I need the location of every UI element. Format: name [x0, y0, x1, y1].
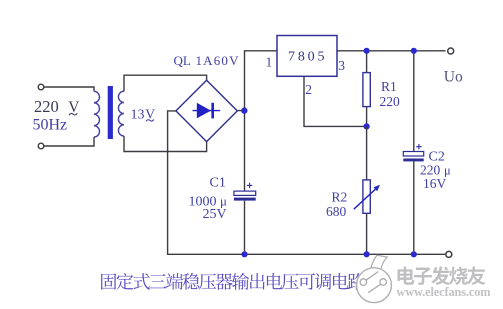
- watermark logo inner left circle: [360, 279, 367, 286]
- wire primary top: [44, 87, 94, 91]
- caption 固定式三端稳压器输出电压可调电路: [101, 273, 365, 290]
- label QL 1A60V: [174, 53, 240, 68]
- svg-text:50Hz: 50Hz: [33, 116, 68, 133]
- transformer core: [108, 86, 113, 139]
- terminal bottom right: [446, 251, 452, 257]
- svg-text:13: 13: [131, 107, 145, 122]
- node R1 bottom / pin2 junction: [364, 123, 370, 129]
- wire pin2: [304, 76, 367, 126]
- svg-text:220: 220: [34, 97, 59, 116]
- node C1 bottom: [241, 251, 247, 257]
- svg-text:R2: R2: [332, 189, 348, 204]
- wire bridge plus down to C1: [244, 111, 246, 192]
- watermark logo diagonals: [366, 272, 381, 293]
- svg-text:680: 680: [326, 204, 347, 219]
- terminal input top: [38, 84, 44, 90]
- wire bridge minus to bottom rail: [168, 111, 446, 254]
- terminal Uo: [448, 48, 454, 54]
- resistor R1: [363, 51, 370, 127]
- regulator U1 7805 box: [277, 36, 337, 77]
- svg-text:QL: QL: [174, 53, 191, 68]
- svg-text:2: 2: [305, 82, 312, 97]
- wire secondary bottom to bridge AC: [124, 136, 207, 152]
- label 220V: [34, 97, 80, 116]
- bridge rectifier QL diamond: [176, 80, 237, 141]
- node bridge plus: [241, 107, 247, 113]
- capacitor C2: [403, 51, 423, 255]
- svg-text:V: V: [68, 99, 80, 116]
- watermark text 电子发烧友: [397, 266, 485, 285]
- svg-text:1: 1: [266, 55, 273, 70]
- svg-text:Uo: Uo: [444, 68, 463, 85]
- svg-text:www.elecfans.com: www.elecfans.com: [397, 285, 492, 299]
- svg-text:25V: 25V: [203, 207, 227, 222]
- svg-text:R1: R1: [381, 79, 397, 94]
- wire bridge plus up to 7805 pin1: [237, 51, 277, 111]
- svg-text:V: V: [145, 106, 155, 121]
- node R1 top: [364, 48, 370, 54]
- svg-text:3: 3: [338, 58, 345, 73]
- svg-text:220: 220: [380, 94, 401, 109]
- watermark logo circle: [357, 268, 392, 303]
- svg-text:C1: C1: [210, 176, 226, 191]
- wire primary bottom: [44, 137, 94, 146]
- capacitor C1: [234, 183, 256, 255]
- resistor R2 (adjustable): [354, 126, 380, 254]
- transformer primary coil: [94, 91, 99, 137]
- svg-text:16V: 16V: [423, 176, 447, 191]
- node C2 bottom: [411, 251, 417, 257]
- wire pin3 output rail: [337, 50, 446, 52]
- wire secondary top: [124, 75, 207, 91]
- node C2 top: [411, 48, 417, 54]
- label 13V: [131, 106, 156, 122]
- watermark logo inner right circle: [380, 279, 387, 286]
- bridge diode symbol: [193, 103, 221, 119]
- transformer secondary coil: [118, 91, 124, 136]
- node R2 bottom: [364, 251, 370, 257]
- terminal input bottom: [38, 143, 44, 149]
- watermark logo tail: [370, 255, 387, 273]
